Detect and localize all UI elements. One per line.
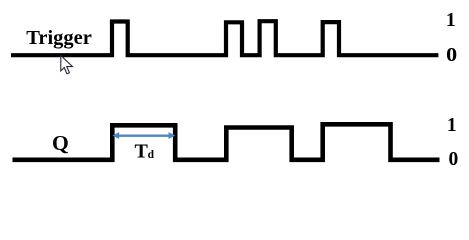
Td delay arrow (double headed) xyxy=(112,132,175,139)
svg-text:T: T xyxy=(135,141,149,163)
Q waveform xyxy=(13,124,440,160)
svg-text:0: 0 xyxy=(449,149,459,170)
svg-text:0: 0 xyxy=(446,45,457,66)
mouse cursor xyxy=(61,56,73,74)
svg-text:1: 1 xyxy=(447,115,457,136)
trigger waveform xyxy=(11,21,438,55)
svg-text:1: 1 xyxy=(446,10,456,31)
svg-text:Q: Q xyxy=(52,131,69,155)
svg-text:d: d xyxy=(148,149,155,161)
svg-text:Trigger: Trigger xyxy=(26,27,92,49)
